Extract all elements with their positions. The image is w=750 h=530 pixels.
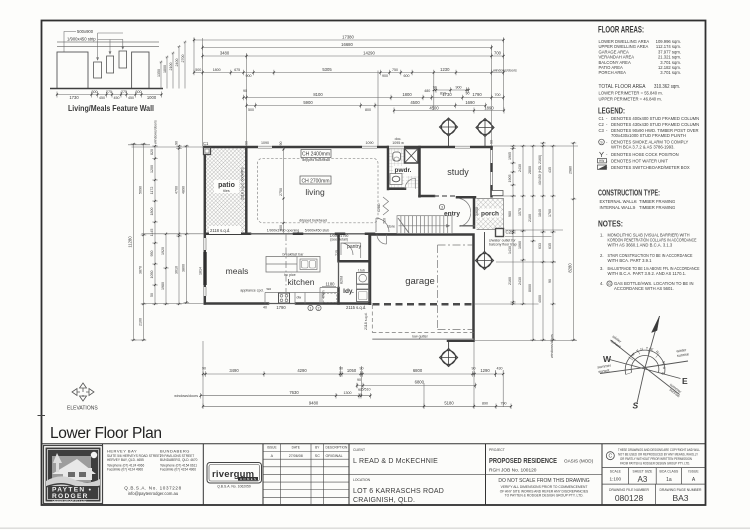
- svg-text:90: 90: [279, 142, 283, 146]
- svg-text:2: 2: [318, 306, 320, 310]
- west-east ray: [610, 360, 681, 379]
- address block: [107, 449, 198, 497]
- svg-text:500: 500: [195, 68, 201, 72]
- svg-text:27/06/08: 27/06/08: [289, 454, 303, 458]
- svg-text:2118 s.q.d. 600WPS: 2118 s.q.d. 600WPS: [241, 167, 245, 200]
- svg-text:NOT BE USED OR REPRODUCED BY A: NOT BE USED OR REPRODUCED BY ANY MEANS, …: [618, 452, 699, 456]
- client box: [349, 448, 486, 504]
- height dim 1800: [166, 56, 169, 89]
- svg-text:3.701 sqm.: 3.701 sqm.: [660, 70, 681, 75]
- north arrowhead: [652, 316, 660, 333]
- pwdr fixtures: [393, 152, 401, 161]
- svg-text:5/510: 5/510: [362, 388, 371, 392]
- svg-text:800: 800: [365, 108, 371, 112]
- svg-text:CRAIGNISH, QLD.: CRAIGNISH, QLD.: [353, 497, 415, 504]
- svg-text:BUNDABERG: BUNDABERG: [160, 449, 190, 454]
- svg-text:1800: 1800: [402, 92, 412, 97]
- svg-text:1: 1: [310, 306, 312, 310]
- pantry door arc + shelves: [341, 243, 361, 258]
- svg-text:820d: 820d: [340, 276, 344, 284]
- wall right panel: [132, 52, 149, 89]
- svg-text:living: living: [305, 187, 325, 197]
- smoke alarm symbol: [599, 139, 605, 145]
- svg-text:dripped bulkhead: dripped bulkhead: [299, 219, 327, 223]
- study left wall: [418, 147, 421, 196]
- svg-text:linen: linen: [322, 290, 326, 298]
- svg-text:C1: C1: [203, 141, 209, 146]
- svg-text:1800: 1800: [213, 68, 221, 72]
- svg-text:40/450 (HDL 2160): 40/450 (HDL 2160): [538, 155, 542, 185]
- svg-text:A3: A3: [638, 475, 648, 484]
- svg-text:1800: 1800: [163, 65, 167, 73]
- svg-text:1350: 1350: [157, 69, 161, 77]
- svg-text:patio: patio: [218, 182, 235, 189]
- svg-text:90: 90: [360, 367, 364, 371]
- svg-text:4890: 4890: [181, 186, 185, 194]
- height dim 2100: [172, 52, 175, 89]
- diamond marker top1: [440, 118, 458, 147]
- notes: [600, 233, 700, 292]
- svg-text:study: study: [447, 167, 469, 177]
- svg-text:1180: 1180: [325, 282, 335, 287]
- left wall windows: [203, 238, 207, 250]
- svg-text:windows/doors: windows/doors: [174, 394, 198, 398]
- extension lines left: [128, 145, 204, 340]
- C1 column: [204, 148, 211, 155]
- wall left panel: [57, 52, 88, 89]
- svg-text:1172: 1172: [150, 187, 154, 195]
- svg-text:9480: 9480: [309, 401, 319, 406]
- summer sunrise ray: [645, 368, 680, 395]
- feature wall detail group: [50, 29, 187, 113]
- svg-text:275: 275: [121, 90, 127, 94]
- CH 2400 box: [301, 150, 331, 158]
- svg-text:2100: 2100: [528, 214, 532, 222]
- top rail lines: [57, 42, 159, 47]
- svg-text:700: 700: [495, 93, 501, 97]
- svg-text:windows/doors: windows/doors: [550, 334, 554, 358]
- svg-text:435: 435: [548, 167, 552, 173]
- svg-text:4500: 4500: [410, 100, 420, 105]
- feature wall black: [203, 252, 206, 285]
- svg-text:PORCH AREA: PORCH AREA: [599, 70, 627, 75]
- garage door dashed: [373, 303, 473, 306]
- top wall: [204, 146, 492, 149]
- rivergum logo: [207, 463, 262, 489]
- switchboard symbol: [598, 165, 607, 169]
- svg-text:2118 s.q.d.: 2118 s.q.d.: [210, 228, 230, 233]
- svg-text:790: 790: [501, 402, 507, 406]
- svg-text:1790: 1790: [276, 305, 286, 310]
- compass rose: [597, 316, 689, 411]
- winter sunrise ray: [645, 361, 688, 368]
- svg-text:2700: 2700: [181, 55, 185, 63]
- svg-text:BCA CLASS: BCA CLASS: [659, 469, 679, 473]
- svg-text:C/BD: C/BD: [377, 203, 381, 212]
- svg-text:300: 300: [92, 90, 98, 94]
- svg-text:2100: 2100: [169, 63, 173, 71]
- svg-text:16680: 16680: [341, 42, 353, 47]
- svg-text:3/600: 3/600: [475, 207, 479, 216]
- svg-text:675: 675: [234, 68, 240, 72]
- svg-text:5090: 5090: [139, 186, 143, 194]
- right wall: [490, 147, 493, 196]
- svg-text:1430: 1430: [508, 246, 512, 254]
- svg-text:(see detail): (see detail): [330, 238, 348, 242]
- svg-text:BUNDABERG, QLD. 4670: BUNDABERG, QLD. 4670: [160, 458, 198, 462]
- svg-text:DRAWING FILE NUMBER: DRAWING FILE NUMBER: [609, 488, 650, 492]
- project box: [486, 448, 603, 498]
- svg-text:DENOTES SWITCHBOARD/METER BOX: DENOTES SWITCHBOARD/METER BOX: [611, 165, 690, 170]
- svg-text:6800: 6800: [413, 368, 423, 373]
- niche C: [119, 51, 127, 68]
- svg-text:C1: C1: [599, 116, 605, 121]
- svg-text:entry: entry: [444, 211, 460, 218]
- svg-text:1:100: 1:100: [610, 477, 622, 482]
- top dimension rows: [193, 35, 517, 147]
- C2 column: [496, 229, 504, 237]
- svg-text:porch: porch: [481, 211, 499, 218]
- xbox square: [405, 149, 419, 164]
- svg-text:OR PARTLY WITHOUT PRIOR WRITTE: OR PARTLY WITHOUT PRIOR WRITTEN PERMISSI…: [620, 457, 693, 461]
- svg-text:3800: 3800: [181, 264, 185, 272]
- extension lines right: [475, 146, 578, 341]
- svg-text:DESCRIPTION: DESCRIPTION: [326, 446, 348, 450]
- svg-text:900: 900: [246, 74, 252, 78]
- svg-text:appliance cpd.: appliance cpd.: [240, 289, 263, 293]
- svg-text:ELEVATIONS: ELEVATIONS: [67, 406, 98, 412]
- svg-text:HW: HW: [599, 159, 604, 163]
- svg-text:2800: 2800: [528, 166, 532, 174]
- svg-text:DESIGN GROUP PTY LTD: DESIGN GROUP PTY LTD: [53, 499, 87, 503]
- svg-text:1145: 1145: [150, 229, 154, 237]
- dim line above markers: [394, 108, 504, 114]
- svg-text:11280: 11280: [128, 236, 133, 248]
- svg-text:720: 720: [383, 218, 387, 224]
- svg-text:1000: 1000: [147, 95, 157, 100]
- svg-text:CLIENT: CLIENT: [353, 448, 365, 452]
- stairs: [376, 216, 452, 234]
- svg-text:7630: 7630: [289, 390, 299, 395]
- pwdr left wall: [388, 147, 405, 189]
- island bench: [266, 257, 320, 273]
- svg-text:3610: 3610: [175, 266, 179, 274]
- svg-text:pantry: pantry: [347, 244, 361, 250]
- svg-text:8280: 8280: [568, 263, 573, 273]
- svg-text:SCALE: SCALE: [610, 469, 622, 473]
- svg-text:tiles: tiles: [223, 189, 230, 193]
- svg-text:14290: 14290: [363, 51, 375, 56]
- svg-text:1060: 1060: [518, 241, 522, 249]
- patio hatch: [206, 148, 247, 233]
- svg-text:750: 750: [392, 68, 398, 72]
- svg-text:DRAWING PAGE NUMBER: DRAWING PAGE NUMBER: [659, 488, 702, 492]
- svg-text:ORIGINAL: ORIGINAL: [326, 454, 343, 458]
- pantry walls: [339, 234, 370, 261]
- right dimension chains: [508, 142, 576, 358]
- svg-text:2400: 2400: [175, 59, 179, 67]
- svg-text:C: C: [608, 454, 612, 460]
- svg-text:S: S: [633, 401, 639, 411]
- svg-text:ldy.: ldy.: [343, 288, 354, 295]
- svg-text:300: 300: [136, 90, 142, 94]
- left dimension chains: [128, 120, 190, 341]
- svg-text:1800: 1800: [150, 208, 154, 216]
- svg-text:HERVEY BAY, QLD. 4655: HERVEY BAY, QLD. 4655: [107, 458, 144, 462]
- svg-text:3: 3: [441, 205, 443, 209]
- height dim 2700: [184, 41, 187, 89]
- svg-text:1760: 1760: [548, 209, 552, 217]
- linen: [320, 288, 339, 304]
- bottom dimension rows: [174, 341, 512, 409]
- meals bottom wall: [205, 302, 370, 305]
- svg-text:EXTERNAL WALLS: EXTERNAL WALLS: [600, 199, 637, 204]
- svg-text:2.: 2.: [600, 253, 604, 258]
- svg-text:4500: 4500: [429, 106, 439, 111]
- section line: [285, 234, 287, 304]
- svg-text:L READ & D McKECHNIE: L READ & D McKECHNIE: [353, 458, 438, 465]
- svg-text:C3: C3: [599, 128, 605, 133]
- svg-text:600: 600: [404, 74, 410, 78]
- svg-text:1730: 1730: [69, 95, 79, 100]
- circled 1 2: [308, 305, 313, 310]
- svg-text:THESE DRAWINGS AND DESIGNS ARE: THESE DRAWINGS AND DESIGNS ARE COPYRIGHT…: [618, 448, 700, 452]
- svg-text:meals: meals: [226, 266, 249, 276]
- svg-text:633: 633: [538, 243, 542, 249]
- svg-text:1570: 1570: [518, 208, 522, 216]
- svg-text:2160: 2160: [508, 277, 512, 285]
- study bottom wall: [420, 196, 476, 197]
- svg-text:TIMBER FRAMING: TIMBER FRAMING: [639, 199, 675, 204]
- svg-text:HERVEY BAY: HERVEY BAY: [107, 449, 137, 454]
- svg-text:WITH BCA 3.7.2 & AS 3786-1993.: WITH BCA 3.7.2 & AS 3786-1993.: [611, 144, 675, 149]
- svg-text:1905: 1905: [508, 152, 512, 160]
- svg-text:450: 450: [114, 96, 120, 100]
- svg-text:2750: 2750: [279, 188, 283, 196]
- 1180 label: [322, 286, 336, 288]
- patio right wall: [245, 147, 248, 234]
- svg-text:90: 90: [358, 388, 362, 392]
- svg-text:980: 980: [508, 211, 512, 217]
- svg-text:1814: 1814: [199, 267, 203, 275]
- svg-text:OASIS (MOD): OASIS (MOD): [564, 459, 594, 464]
- main floor plan: [203, 141, 512, 341]
- svg-text:RGH JOB No. 100120: RGH JOB No. 100120: [489, 468, 537, 474]
- svg-text:LOT 6 KARRASCHS ROAD: LOT 6 KARRASCHS ROAD: [353, 488, 444, 495]
- svg-text:CONSTRUCTION TYPE:: CONSTRUCTION TYPE:: [598, 188, 660, 198]
- svg-text:90: 90: [548, 279, 552, 283]
- svg-text:1980: 1980: [161, 282, 165, 290]
- svg-text:DATE: DATE: [292, 446, 300, 450]
- elevations marker: [72, 383, 94, 401]
- svg-text:PROPOSED RESIDENCE: PROPOSED RESIDENCE: [489, 458, 557, 465]
- svg-text:900: 900: [456, 86, 462, 90]
- svg-text:1a: 1a: [666, 477, 672, 483]
- svg-text:700: 700: [494, 51, 502, 56]
- compass rays: [600, 316, 688, 403]
- svg-text:SHEET SIZE: SHEET SIZE: [633, 469, 653, 473]
- svg-text:info@paytenrodger.com.au: info@paytenrodger.com.au: [128, 491, 179, 496]
- winter sun arcs: [631, 356, 659, 373]
- svg-text:ACCORDANCE WITH AS 5601.: ACCORDANCE WITH AS 5601.: [614, 286, 674, 291]
- hot water symbol: [598, 159, 607, 163]
- svg-text:ISSUE: ISSUE: [267, 446, 277, 450]
- left wall: [204, 147, 207, 304]
- svg-text:1905: 1905: [508, 175, 512, 183]
- pwdr tiles: [389, 149, 404, 189]
- svg-text:3.: 3.: [600, 266, 604, 271]
- svg-text:1300: 1300: [344, 391, 352, 395]
- porch step: [492, 191, 504, 196]
- garage walls: [370, 235, 474, 341]
- svg-text:LOWER PERIMETER = 55.840 m.: LOWER PERIMETER = 55.840 m.: [599, 91, 663, 96]
- top wall windows: [258, 141, 470, 149]
- height dim 1350: [160, 61, 163, 89]
- ray labels: [597, 335, 689, 399]
- svg-text:UPPER PERIMETER = 46.840 m.: UPPER PERIMETER = 46.840 m.: [599, 97, 662, 102]
- svg-text:HOMES: HOMES: [240, 477, 257, 481]
- niche B: [107, 56, 114, 73]
- svg-text:3870: 3870: [139, 266, 143, 274]
- right wall windows: [490, 150, 494, 163]
- svg-text:1095 w: 1095 w: [392, 141, 404, 145]
- entry double door arcs: [460, 199, 471, 227]
- svg-text:TO PAYTEN & RODGER DESIGN GROU: TO PAYTEN & RODGER DESIGN GROUP PTY. LTD…: [505, 494, 584, 498]
- low gutter line: [372, 338, 473, 340]
- svg-text:5305: 5305: [322, 67, 332, 72]
- svg-text:FROM PAYTEN & RODGER DESIGN GR: FROM PAYTEN & RODGER DESIGN GROUP PTY. L…: [620, 461, 690, 465]
- kitchen bottom bench: [265, 293, 339, 304]
- svg-text:TIMBER FRAMING: TIMBER FRAMING: [639, 205, 675, 210]
- svg-text:900: 900: [382, 74, 388, 78]
- scan streak bottom: [0, 527, 750, 529]
- svg-text:FLOOR AREAS:: FLOOR AREAS:: [598, 25, 644, 35]
- svg-text:Facsimile (07) 4124 4966: Facsimile (07) 4124 4966: [107, 468, 143, 472]
- garage roof dashdot rect: [438, 245, 473, 330]
- porch label: [480, 209, 501, 218]
- svg-text:PROJECT: PROJECT: [489, 448, 505, 452]
- svg-text:1840: 1840: [538, 209, 542, 217]
- svg-text:pwdr.: pwdr.: [395, 167, 412, 174]
- svg-text:1090: 1090: [261, 141, 269, 145]
- svg-text:080128: 080128: [615, 493, 644, 503]
- svg-text:windows/doors: windows/doors: [493, 69, 517, 73]
- svg-text:1200: 1200: [150, 165, 154, 173]
- living ceiling dashed rect: [258, 158, 379, 223]
- svg-text:dw: dw: [297, 296, 302, 300]
- svg-text:1890: 1890: [484, 106, 494, 111]
- svg-text:1790: 1790: [472, 92, 482, 97]
- svg-text:low gutter: low gutter: [412, 335, 428, 339]
- svg-text:DENOTES 430x430 STUD FRAMED CO: DENOTES 430x430 STUD FRAMED COLUMN: [611, 122, 699, 127]
- svg-text:90: 90: [433, 86, 437, 90]
- svg-text:windows/doors: windows/doors: [154, 120, 158, 144]
- svg-text:1.: 1.: [600, 233, 604, 238]
- ground line: [50, 88, 163, 90]
- svg-text:G: G: [608, 282, 611, 286]
- svg-text:1290: 1290: [480, 368, 490, 373]
- svg-text:1050: 1050: [347, 368, 357, 373]
- svg-text:5/900x450 stub: 5/900x450 stub: [305, 229, 330, 233]
- svg-text:2115 s.q.d.: 2115 s.q.d.: [346, 305, 366, 310]
- svg-text:820: 820: [150, 149, 154, 155]
- bottom dim chain: [57, 92, 162, 98]
- issue table: [263, 444, 349, 505]
- height dim 2400: [178, 45, 181, 88]
- svg-text:INTERNAL WALLS: INTERNAL WALLS: [600, 205, 636, 210]
- svg-text:6800: 6800: [415, 380, 425, 385]
- svg-text:17380: 17380: [342, 35, 354, 40]
- svg-text:700x430x1000 STUD FRAMED PLINT: 700x430x1000 STUD FRAMED PLINTH: [611, 133, 686, 138]
- south ray: [637, 368, 645, 404]
- svg-text:90: 90: [357, 378, 361, 382]
- patio label: [214, 180, 239, 193]
- svg-text:2118 s.q.d.: 2118 s.q.d.: [364, 312, 368, 330]
- svg-text:t.tub: t.tub: [358, 269, 365, 273]
- arc radial ticks: [626, 348, 665, 375]
- svg-text:8100: 8100: [313, 92, 323, 97]
- svg-text:450: 450: [128, 96, 134, 100]
- svg-text:2430: 2430: [518, 277, 522, 285]
- summer sunset ray: [600, 368, 645, 374]
- svg-text:275: 275: [106, 90, 112, 94]
- svg-text:1/900x450 strip: 1/900x450 strip: [67, 37, 96, 42]
- CH 2700 box: [300, 176, 331, 184]
- svg-text:wo: wo: [267, 287, 272, 291]
- svg-text:8000: 8000: [528, 284, 532, 292]
- north ray: [645, 316, 660, 368]
- svg-text:50: 50: [150, 293, 154, 297]
- niche drop leaders: [97, 42, 124, 60]
- svg-text:5900: 5900: [303, 100, 313, 105]
- svg-text:1090: 1090: [366, 141, 374, 145]
- svg-text:C2: C2: [599, 122, 605, 127]
- svg-text:40: 40: [263, 306, 267, 310]
- svg-text:DO NOT SCALE FROM THIS DRAWING: DO NOT SCALE FROM THIS DRAWING: [498, 478, 589, 484]
- svg-text:Q.B.S.A. No. 1062059: Q.B.S.A. No. 1062059: [217, 485, 251, 489]
- svg-text:DENOTES HOT WATER UNIT: DENOTES HOT WATER UNIT: [611, 159, 668, 164]
- entry east wall + south stub: [473, 198, 476, 228]
- svg-text:2100: 2100: [139, 318, 143, 326]
- legend items: [599, 116, 700, 170]
- svg-text:WITH AS 3660.1 AND B.C.A. 3.1.: WITH AS 3660.1 AND B.C.A. 3.1.3: [608, 243, 673, 248]
- svg-text:1050: 1050: [150, 271, 154, 279]
- svg-text:90: 90: [339, 367, 343, 371]
- svg-text:4700: 4700: [175, 186, 179, 194]
- svg-text:kitchen: kitchen: [288, 277, 315, 287]
- svg-text:430: 430: [497, 367, 503, 371]
- svg-text:4.: 4.: [600, 281, 604, 286]
- svg-text:CH 2400mm: CH 2400mm: [302, 152, 330, 158]
- cbd bifold doors: [383, 197, 389, 215]
- svg-text:500: 500: [248, 108, 254, 112]
- svg-text:950: 950: [150, 251, 154, 257]
- svg-text:725: 725: [335, 250, 339, 256]
- svg-text:635: 635: [548, 243, 552, 249]
- svg-text:WITH BCA. PART 3.9.1: WITH BCA. PART 3.9.1: [608, 258, 653, 263]
- garage entry door arc: [377, 235, 387, 245]
- svg-text:480: 480: [424, 89, 430, 93]
- kitchen right wall: [368, 234, 371, 304]
- svg-text:3480: 3480: [220, 51, 230, 56]
- svg-text:90: 90: [175, 141, 179, 145]
- svg-text:2430: 2430: [518, 164, 522, 172]
- room labels and fixtures: [199, 106, 517, 367]
- svg-text:Facsimile (07) 4154 4966: Facsimile (07) 4154 4966: [160, 468, 196, 472]
- living bottom wall: [205, 233, 250, 236]
- svg-text:NOTES:: NOTES:: [598, 219, 623, 229]
- svg-text:TOTAL FLOOR AREA: TOTAL FLOOR AREA: [599, 84, 646, 90]
